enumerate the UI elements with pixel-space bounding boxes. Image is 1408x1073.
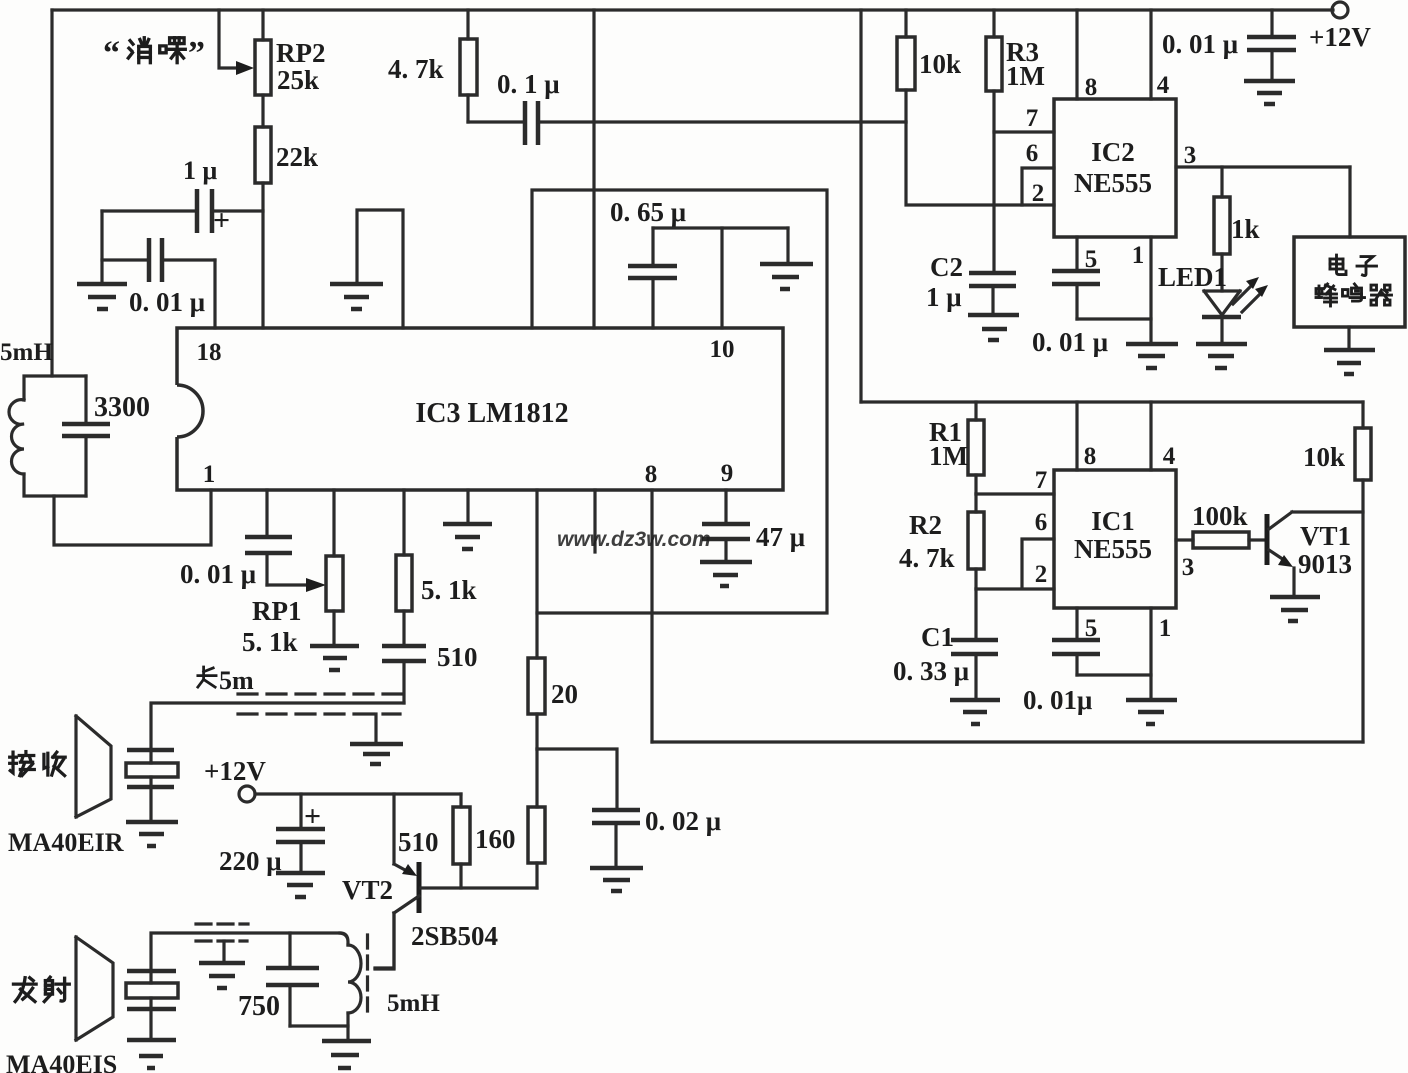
svg-text:C1: C1 xyxy=(921,622,954,652)
transducer MA40EIR element xyxy=(127,750,174,787)
svg-text:1k: 1k xyxy=(1231,214,1260,244)
svg-text:2: 2 xyxy=(1032,180,1045,207)
transducer MA40EIS element xyxy=(127,971,176,1009)
resistor 1k xyxy=(1220,167,1223,291)
svg-text:8: 8 xyxy=(645,461,658,488)
ground under 0.02μ xyxy=(590,868,643,891)
wire IC2 pin 1 to ground xyxy=(1149,237,1152,344)
ground under transformer xyxy=(322,1041,371,1068)
svg-text:5mH: 5mH xyxy=(387,990,440,1017)
wire IC1 pin 1 to ground xyxy=(1149,608,1152,700)
potentiometer RP1 wiper arrow xyxy=(267,583,310,586)
svg-text:”: ” xyxy=(188,35,205,72)
resistor 4.7k top xyxy=(466,10,469,122)
potentiometer RP1 xyxy=(332,490,335,646)
wire IC1 pin 7 stub xyxy=(976,492,1054,495)
transducer MA40EIR horn xyxy=(76,716,111,817)
ground under 220μ xyxy=(276,873,325,897)
svg-text:9013: 9013 xyxy=(1298,549,1352,579)
svg-text:3: 3 xyxy=(1184,142,1197,169)
inductor 5mH primary coil xyxy=(340,933,348,945)
ground under C2 xyxy=(968,315,1019,340)
capacitor 220μ xyxy=(299,794,302,873)
capacitor 0.01μ at +12V xyxy=(1270,10,1273,81)
wire buzzer to ground xyxy=(1347,327,1350,350)
wire IC1 pin 4 to rail xyxy=(1149,402,1152,470)
wire pin 3 to buzzer xyxy=(1348,167,1351,237)
capacitor C2 1μ xyxy=(969,273,1016,286)
transformer core dashed line xyxy=(366,935,369,1012)
svg-text:0. 01 μ: 0. 01 μ xyxy=(180,559,256,589)
svg-text:1M: 1M xyxy=(1006,61,1045,91)
transistor VT2 2SB504 xyxy=(394,794,405,870)
svg-text:510: 510 xyxy=(437,642,478,672)
svg-text:6: 6 xyxy=(1026,140,1039,167)
capacitor 0.01μ at IC1 pin 5 xyxy=(1075,608,1078,675)
svg-text:0. 1 μ: 0. 1 μ xyxy=(497,69,560,99)
svg-text:+12V: +12V xyxy=(1309,22,1371,52)
svg-text:5m: 5m xyxy=(219,666,254,695)
wire R3 to pin7 and C2 xyxy=(992,91,995,273)
wire 22k to IC3 pin (crosses 1u cap wire) xyxy=(261,183,264,328)
svg-text:4. 7k: 4. 7k xyxy=(899,543,955,573)
wire element to ground xyxy=(149,1009,152,1040)
ground under LED1 xyxy=(1196,344,1247,368)
svg-text:4. 7k: 4. 7k xyxy=(388,54,444,84)
capacitor 0.02μ xyxy=(592,810,640,823)
svg-text:1 μ: 1 μ xyxy=(183,156,218,185)
resistor 5.1k xyxy=(402,490,405,646)
wire top +12V rail xyxy=(52,8,1333,11)
resistor R1 1M xyxy=(974,402,977,494)
wire transformer secondary to VT2 collector xyxy=(375,913,394,969)
wire 10k bottom to pins 2/6 of IC2 xyxy=(906,122,1022,205)
svg-text:RP2: RP2 xyxy=(276,38,326,68)
ground under RP1 xyxy=(310,646,359,670)
svg-text:0. 01μ: 0. 01μ xyxy=(1023,685,1092,715)
svg-text:10k: 10k xyxy=(919,49,961,79)
svg-text:0. 01 μ: 0. 01 μ xyxy=(1162,29,1238,59)
wire pin 10 stub xyxy=(720,228,723,328)
svg-text:IC2: IC2 xyxy=(1091,137,1135,167)
op-amp IC3 LM1812 box xyxy=(177,328,783,490)
ground under C1 xyxy=(950,700,1000,724)
svg-text:8: 8 xyxy=(1085,74,1098,101)
svg-text:1: 1 xyxy=(1159,615,1172,642)
wire shielded cable center xyxy=(151,703,404,750)
svg-text:22k: 22k xyxy=(276,142,318,172)
svg-text:0. 02 μ: 0. 02 μ xyxy=(645,806,721,836)
wire 4.7k/0.1μ to 10k junction xyxy=(468,120,906,123)
svg-text:47 μ: 47 μ xyxy=(756,522,805,552)
svg-text:8: 8 xyxy=(1084,443,1097,470)
potentiometer RP2 xyxy=(261,10,264,40)
svg-text:“: “ xyxy=(103,35,120,72)
svg-text:3: 3 xyxy=(1182,554,1195,581)
capacitor 0.65μ xyxy=(651,228,654,328)
svg-text:3300: 3300 xyxy=(94,392,150,423)
svg-text:1: 1 xyxy=(203,461,216,488)
wire left rail down to tank xyxy=(50,10,53,376)
ground under 0.01μ at +12V xyxy=(1244,81,1295,104)
transistor VT1 9013 xyxy=(1265,514,1270,565)
svg-text:RP1: RP1 xyxy=(252,596,302,626)
svg-text:0. 01 μ: 0. 01 μ xyxy=(129,287,205,317)
svg-text:6: 6 xyxy=(1035,509,1048,536)
ground under MA40EIS xyxy=(127,1040,176,1068)
ground under IC1 pin 1 xyxy=(1126,700,1177,724)
capacitor 1μ xyxy=(197,189,212,233)
svg-text:MA40EIS: MA40EIS xyxy=(6,1050,117,1073)
potentiometer RP2 wiper arrow xyxy=(219,10,240,68)
resistor 22k xyxy=(255,127,271,183)
ground cable shield xyxy=(374,714,377,744)
svg-text:750: 750 xyxy=(238,991,280,1022)
capacitor 47μ on pin 9 xyxy=(724,490,727,562)
ground under IC2 pin 1 xyxy=(1126,344,1178,368)
ground under IC3 pin xyxy=(466,490,469,524)
capacitor C1 0.33μ xyxy=(974,589,977,700)
label 电子 xyxy=(1330,255,1377,276)
node +12V terminal xyxy=(1332,2,1348,18)
ground under VT1 xyxy=(1270,597,1320,621)
ground under 1μ/0.01μ xyxy=(77,284,127,309)
resistor 160 xyxy=(535,749,538,888)
wire IC1 pins 6-2 bracket xyxy=(976,539,1054,589)
svg-text:220 μ: 220 μ xyxy=(219,846,282,876)
wire IC2 pin 3 xyxy=(1176,165,1350,168)
svg-text:10k: 10k xyxy=(1303,442,1345,472)
wire IC1 section top rail xyxy=(861,400,1363,403)
svg-text:100k: 100k xyxy=(1192,501,1248,531)
resistor 10k right xyxy=(1361,402,1364,742)
wire RP2 to 22k xyxy=(261,95,264,127)
svg-text:1 μ: 1 μ xyxy=(926,282,962,312)
svg-text:0. 01 μ: 0. 01 μ xyxy=(1032,327,1108,357)
resistor R2 4.7k xyxy=(974,494,977,589)
svg-text:2: 2 xyxy=(1035,561,1048,588)
ground under buzzer xyxy=(1324,350,1375,374)
svg-text:R2: R2 xyxy=(909,510,942,540)
label 接收 xyxy=(10,752,66,776)
wire +12V rail down to IC1 rail xyxy=(859,10,862,402)
buzzer 电子蜂鸣器 box xyxy=(1294,237,1405,327)
node "消噪" label xyxy=(103,35,205,72)
capacitor 0.1μ xyxy=(525,101,538,145)
wire IC2 pins 6-2 bracket xyxy=(1022,168,1054,205)
ground under MA40EIR xyxy=(126,822,178,846)
svg-text:4: 4 xyxy=(1163,443,1176,470)
svg-text:1: 1 xyxy=(1132,242,1145,269)
svg-text:2SB504: 2SB504 xyxy=(411,921,498,951)
ground under 47μ xyxy=(700,562,752,586)
wire 750 to coil bottom xyxy=(290,1024,348,1027)
wire lower cable shield dashes top xyxy=(196,922,248,925)
wire lower cable shield dashes bottom xyxy=(196,939,247,942)
capacitor 0.01μ under IC3 xyxy=(265,490,268,585)
wire IC2 pin 8 to rail xyxy=(1075,10,1078,99)
svg-text:5mH: 5mH xyxy=(0,339,53,366)
resistor 20 xyxy=(535,613,538,749)
wire cable shield dashes top xyxy=(238,692,401,695)
svg-text:IC3 LM1812: IC3 LM1812 xyxy=(415,398,568,429)
svg-text:0. 33 μ: 0. 33 μ xyxy=(893,656,969,686)
resistor 10k left xyxy=(904,10,907,122)
svg-text:+12V: +12V xyxy=(204,756,266,786)
ground lower cable shield xyxy=(222,941,225,962)
wire +12V rail to IC3 top pin xyxy=(592,10,595,328)
svg-text:7: 7 xyxy=(1035,467,1048,494)
svg-text:IC1: IC1 xyxy=(1091,506,1135,536)
capacitor 0.01μ at IC2 pin 5 xyxy=(1075,237,1078,319)
label 蜂鸣器 xyxy=(1316,284,1392,306)
svg-text:LED1: LED1 xyxy=(1158,262,1227,292)
svg-text:510: 510 xyxy=(398,827,439,857)
svg-text:5: 5 xyxy=(1085,246,1098,273)
transducer MA40EIS horn xyxy=(76,937,113,1040)
wire tank bottom to IC3 pin 1 xyxy=(54,490,211,545)
wire cap junction down xyxy=(100,211,103,284)
svg-text:NE555: NE555 xyxy=(1074,534,1152,564)
wire 20/160 junction to 0.02μ xyxy=(537,749,617,810)
svg-text:4: 4 xyxy=(1157,72,1170,99)
label 发射 xyxy=(13,977,69,1001)
diode LED1 xyxy=(1204,291,1240,315)
svg-text:www.dz3w.com: www.dz3w.com xyxy=(557,528,711,551)
wire IC1 pin 8 to rail xyxy=(1075,402,1078,470)
svg-text:VT2: VT2 xyxy=(342,875,393,905)
wire feedback wrap rectangle (IC3 top pin to pin8 net) xyxy=(532,190,827,613)
svg-text:25k: 25k xyxy=(277,65,319,95)
wire VT2 base to resistors xyxy=(421,886,537,889)
label 长5m xyxy=(198,666,254,695)
ground bracket mid (IC3 top pin to ground) xyxy=(357,210,403,328)
svg-text:9: 9 xyxy=(721,460,734,487)
wire element to ground xyxy=(149,787,152,822)
timer IC2 NE555 box xyxy=(1054,99,1176,237)
capacitor 0.01μ top-left xyxy=(149,238,162,282)
capacitor 3300 xyxy=(84,376,87,496)
resistor R3 1M xyxy=(992,10,995,37)
wire IC2 pin 4 to rail xyxy=(1149,10,1152,99)
capacitor 750 xyxy=(288,933,291,1026)
wire IC3 pin 8 down to bottom rail xyxy=(650,490,653,742)
resistor 100k xyxy=(1176,538,1265,541)
capacitor 510 xyxy=(382,646,426,661)
svg-text:NE555: NE555 xyxy=(1074,168,1152,198)
resistor 510 at VT2 xyxy=(459,794,462,888)
svg-text:5: 5 xyxy=(1085,615,1098,642)
wire MA40EIS to transformer xyxy=(151,933,340,971)
svg-text:MA40EIR: MA40EIR xyxy=(8,828,124,857)
wire pin5 cap to pin1 xyxy=(1077,317,1151,320)
svg-text:20: 20 xyxy=(551,679,578,709)
svg-text:160: 160 xyxy=(475,824,516,854)
ground for 0.65μ net xyxy=(786,228,789,264)
svg-text:0. 65 μ: 0. 65 μ xyxy=(610,197,686,227)
svg-text:10: 10 xyxy=(710,336,735,363)
wire cable shield dashes bottom xyxy=(238,712,400,715)
svg-text:7: 7 xyxy=(1026,105,1039,132)
svg-text:VT1: VT1 xyxy=(1300,521,1351,551)
wire pin5 cap to pin1 of IC1 xyxy=(1077,673,1151,676)
wire 0.65μ net xyxy=(653,226,788,229)
wire IC3 pin stub no-connect xyxy=(593,490,596,552)
svg-text:5. 1k: 5. 1k xyxy=(421,575,477,605)
wire +12V feed xyxy=(255,792,461,795)
svg-text:5. 1k: 5. 1k xyxy=(242,627,298,657)
wire IC2 pin 7 stub xyxy=(994,130,1054,133)
svg-text:1M: 1M xyxy=(929,441,968,471)
wire 0.01μ to IC3 pin 18 xyxy=(213,260,216,328)
timer IC1 NE555 box xyxy=(1054,470,1176,608)
svg-text:18: 18 xyxy=(197,339,222,366)
inductor 5mH tank coil and box xyxy=(24,376,86,496)
svg-text:C2: C2 xyxy=(930,252,963,282)
wire bottom rail of IC1 section xyxy=(652,740,1363,743)
svg-text:+: + xyxy=(213,204,230,237)
